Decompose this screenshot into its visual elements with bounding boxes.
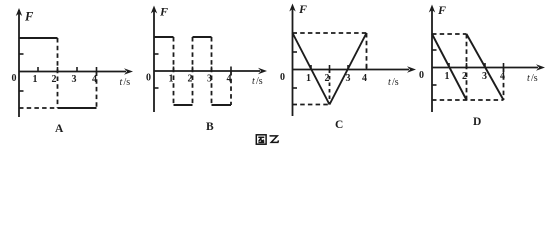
graph A top F line (0 to 2) xyxy=(19,37,58,39)
graph D top dashed line at +F xyxy=(432,33,467,35)
graph A dashed horizontal at -F xyxy=(19,107,58,109)
svg-text:B: B xyxy=(206,121,214,133)
graph C x-axis xyxy=(293,66,417,72)
graph B bottom F segment (1 to 2) xyxy=(174,104,193,106)
graph D x ticks xyxy=(449,63,504,68)
svg-text:F: F xyxy=(24,10,34,24)
svg-text:0: 0 xyxy=(419,70,424,81)
svg-text:F: F xyxy=(298,2,307,16)
graph C dashed vertical at t=4 xyxy=(366,33,368,70)
svg-text:F: F xyxy=(159,5,168,19)
svg-text:D: D xyxy=(473,116,481,128)
graph B top F segment (2 to 3) xyxy=(193,36,212,38)
graph B x-axis xyxy=(154,68,267,74)
graph B dashed vertical at t=2 xyxy=(192,37,194,105)
graph B y ticks xyxy=(154,54,159,88)
caption character 图 xyxy=(256,135,266,144)
graph A dashed vertical at t=4 xyxy=(96,72,98,109)
graph A y ticks xyxy=(19,54,24,91)
graph D y-axis xyxy=(429,5,435,113)
svg-text:/s: /s xyxy=(124,77,131,88)
svg-text:t: t xyxy=(252,76,255,87)
svg-text:F: F xyxy=(437,3,446,17)
svg-text:0: 0 xyxy=(146,73,151,84)
svg-text:t: t xyxy=(388,77,391,88)
graph B x ticks xyxy=(174,67,232,72)
graph A bottom F line (2 to 4) xyxy=(58,107,97,109)
graph C tick labels xyxy=(306,73,367,84)
svg-text:0: 0 xyxy=(12,73,17,84)
svg-text:A: A xyxy=(55,123,64,135)
svg-text:/s: /s xyxy=(256,76,263,87)
graph D first descending line xyxy=(432,34,467,100)
svg-text:0: 0 xyxy=(280,72,285,83)
graph C ascending line xyxy=(330,33,367,105)
graph B dashed vertical at t=3 xyxy=(211,37,213,105)
graph D dashed vertical at t=2 xyxy=(466,34,468,100)
graph C dashed horizontal at -F xyxy=(293,104,330,106)
graph B bottom F segment (3 to 4) xyxy=(212,104,232,106)
graph D y ticks xyxy=(432,50,437,85)
svg-text:/s: /s xyxy=(392,77,399,88)
caption character 乙 xyxy=(270,136,279,143)
graph D x-axis xyxy=(432,64,545,70)
svg-text:1: 1 xyxy=(306,73,311,84)
svg-text:/s: /s xyxy=(531,73,538,84)
svg-text:2: 2 xyxy=(52,74,57,85)
graph C x ticks xyxy=(311,65,367,70)
svg-text:t: t xyxy=(120,77,123,88)
graph A y-axis xyxy=(16,8,22,117)
graph A x-axis xyxy=(19,68,133,74)
graph C y-axis xyxy=(289,4,295,117)
graph D second descending line xyxy=(467,34,504,100)
svg-text:t: t xyxy=(527,73,530,84)
svg-text:C: C xyxy=(335,119,343,131)
graph C descending line xyxy=(293,33,330,105)
svg-text:4: 4 xyxy=(362,73,367,84)
graph D dashed horizontal at -F xyxy=(432,99,504,101)
graph B dashed vertical at t=1 xyxy=(173,37,175,105)
graph B tick labels xyxy=(169,74,232,85)
svg-text:1: 1 xyxy=(445,71,450,82)
svg-text:3: 3 xyxy=(72,74,77,85)
graph A x ticks xyxy=(38,67,97,72)
graph B dashed vertical at t=4 xyxy=(230,71,232,105)
graph A tick labels xyxy=(33,74,98,85)
graph B top F segment (0 to 1) xyxy=(154,36,174,38)
svg-text:1: 1 xyxy=(33,74,38,85)
graph B y-axis xyxy=(151,6,157,113)
graph D tick labels xyxy=(445,71,506,82)
graph D dashed vertical at t=4 xyxy=(503,68,505,101)
svg-text:3: 3 xyxy=(482,71,487,82)
graph A dashed vertical at t=2 xyxy=(57,38,59,108)
graph C top dashed line at +F xyxy=(293,32,367,34)
graph C y ticks xyxy=(293,52,298,88)
svg-text:3: 3 xyxy=(346,73,351,84)
graph C dashed vertical at t=2 xyxy=(329,70,331,105)
